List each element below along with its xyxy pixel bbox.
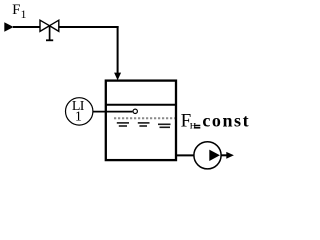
wire inlet to valve bbox=[13, 26, 40, 28]
tank bbox=[106, 81, 176, 161]
valve V1 bbox=[40, 20, 59, 40]
pump rotor triangle bbox=[209, 150, 220, 161]
outlet arrow head bbox=[226, 152, 234, 159]
water tick group 3 bbox=[158, 124, 171, 127]
pump P1 bbox=[194, 142, 221, 169]
equals sign of subscript bbox=[194, 125, 200, 127]
probe circle bbox=[133, 109, 137, 113]
water tick group 1 bbox=[117, 123, 129, 126]
tank inner top line bbox=[105, 104, 177, 106]
svg-text:1: 1 bbox=[75, 109, 82, 124]
outlet arrow wire bbox=[221, 154, 228, 156]
wire corner down to tank bbox=[117, 26, 119, 74]
inlet arrow bbox=[4, 22, 13, 32]
LI sensing line bbox=[92, 111, 132, 113]
arrow into tank bbox=[114, 73, 121, 81]
svg-text:н: н bbox=[190, 118, 197, 132]
water tick group 2 bbox=[138, 123, 150, 126]
outlet wire tank to pump bbox=[177, 154, 196, 156]
svg-text:const: const bbox=[202, 110, 250, 130]
wire valve to corner bbox=[59, 26, 119, 28]
liquid level dashed line bbox=[114, 117, 175, 119]
instrument LI1 circle bbox=[66, 98, 93, 125]
